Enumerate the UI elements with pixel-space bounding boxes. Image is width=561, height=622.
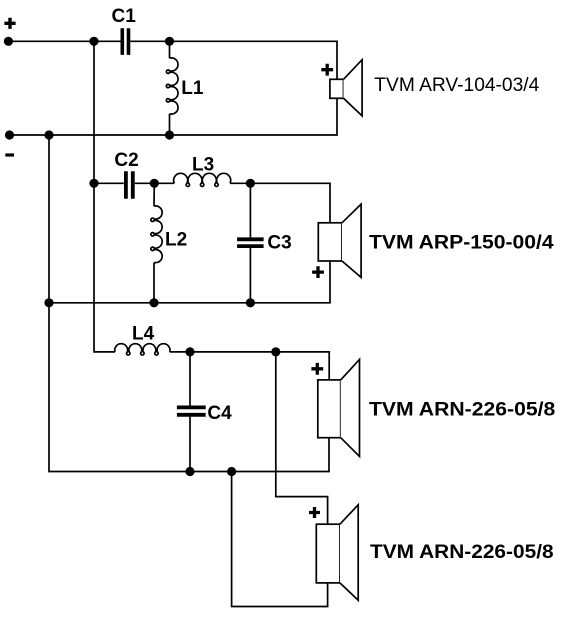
svg-text:TVM ARP-150-00/4: TVM ARP-150-00/4 xyxy=(369,233,554,254)
wire: midrange return row y=302.8 from left rail to SP2 return xyxy=(49,261,330,303)
inductor L2 xyxy=(151,183,187,302)
wire: L4 row from coil to speaker SP3 feed xyxy=(170,352,330,380)
svg-text:L3: L3 xyxy=(192,155,214,176)
node: junction L4 / C4 top at x=190 xyxy=(185,347,194,356)
speaker SP2 (midrange) xyxy=(312,204,361,278)
svg-text:L2: L2 xyxy=(165,229,187,250)
node: junction - rail / left rail at x=49 xyxy=(44,130,53,139)
capacitor C4 xyxy=(177,403,232,424)
speaker SP3 (woofer) xyxy=(311,359,359,456)
capacitor C2 xyxy=(114,150,138,199)
label TVM ARP-150-00/4 xyxy=(369,233,554,254)
wire: SP4 feed from woofer row down, step right, into SP4 xyxy=(276,352,328,524)
node: junction L3 / C3 top at x=250.4 xyxy=(246,179,255,188)
plus input terminal xyxy=(4,18,16,46)
node: junction + rail / L1 top at x=169.5 xyxy=(165,37,174,46)
svg-text:C4: C4 xyxy=(207,403,232,424)
node: junction - rail / L1 bottom at x=169.5 xyxy=(165,130,174,139)
svg-text:L4: L4 xyxy=(132,324,155,345)
node: junction C2 / L2 top at x=154.3 xyxy=(150,179,159,188)
label TVM ARV-104-03/4 xyxy=(374,75,539,96)
inductor L1 xyxy=(166,41,204,135)
svg-text:C1: C1 xyxy=(112,6,137,27)
speaker SP1 (tweeter) xyxy=(321,60,362,116)
node: junction vertical feed / C2 row xyxy=(89,179,98,188)
wire: C4 branch vertical x=190 xyxy=(189,352,191,472)
capacitor C3 xyxy=(237,183,292,302)
svg-text:TVM ARV-104-03/4: TVM ARV-104-03/4 xyxy=(374,75,539,96)
capacitor C1 xyxy=(112,6,137,55)
wire: C2 row from vertical feed to C2 xyxy=(94,182,124,184)
wire: SP4 return down, left along y=606.5, up to bottom row xyxy=(232,472,328,607)
node: junction L2 bottom / return row xyxy=(149,298,158,307)
wire: + rail from C1 to speaker SP1, turning down at x=337 xyxy=(130,41,337,79)
wire: + rail from + terminal to C1 xyxy=(8,40,120,42)
svg-text:C2: C2 xyxy=(114,150,138,171)
wire: left ground rail x=49 down and right along y=471.5 to SP3 return xyxy=(49,135,329,472)
node: junction woofer row / SP4 feed at x=275.8 xyxy=(271,347,280,356)
inductor L3 xyxy=(174,155,231,187)
node: junction on + rail at x=94 xyxy=(89,37,98,46)
svg-text:TVM ARN-226-05/8: TVM ARN-226-05/8 xyxy=(370,542,554,563)
label TVM ARN-226-05/8 xyxy=(369,399,555,420)
node: junction C4 bottom / bottom row xyxy=(185,467,194,476)
label TVM ARN-226-05/8 (second) xyxy=(370,542,554,563)
node: junction left rail / return row xyxy=(44,298,53,307)
node: junction C3 bottom / return row xyxy=(246,298,255,307)
svg-text:L1: L1 xyxy=(181,78,204,99)
svg-text:TVM ARN-226-05/8: TVM ARN-226-05/8 xyxy=(369,399,555,420)
wire: - rail from - terminal to speaker SP1 return xyxy=(10,98,338,135)
wire: C2 row from C2 through L3 lead to speaker SP2 feed xyxy=(135,183,330,223)
svg-text:C3: C3 xyxy=(267,232,291,253)
minus input terminal xyxy=(5,130,14,155)
wire: vertical feed from + rail down to L4 row xyxy=(94,41,115,352)
node: junction SP4 return / bottom row at x=231.6 xyxy=(227,467,236,476)
speaker SP4 (woofer) xyxy=(309,505,358,601)
inductor L4 xyxy=(115,324,170,356)
